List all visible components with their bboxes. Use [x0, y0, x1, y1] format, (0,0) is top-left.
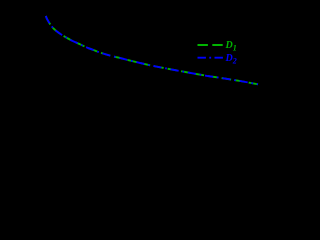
curve D2 (blue dash-dot, drawn on top): [46, 16, 258, 84]
legend sample line D1 (green dashed): [198, 44, 224, 46]
legend label D1: [226, 41, 237, 52]
legend sample line D2 (blue dash-dot): [198, 57, 224, 59]
legend label D2: [226, 54, 237, 65]
curve D1 (green dashed): [46, 16, 258, 84]
